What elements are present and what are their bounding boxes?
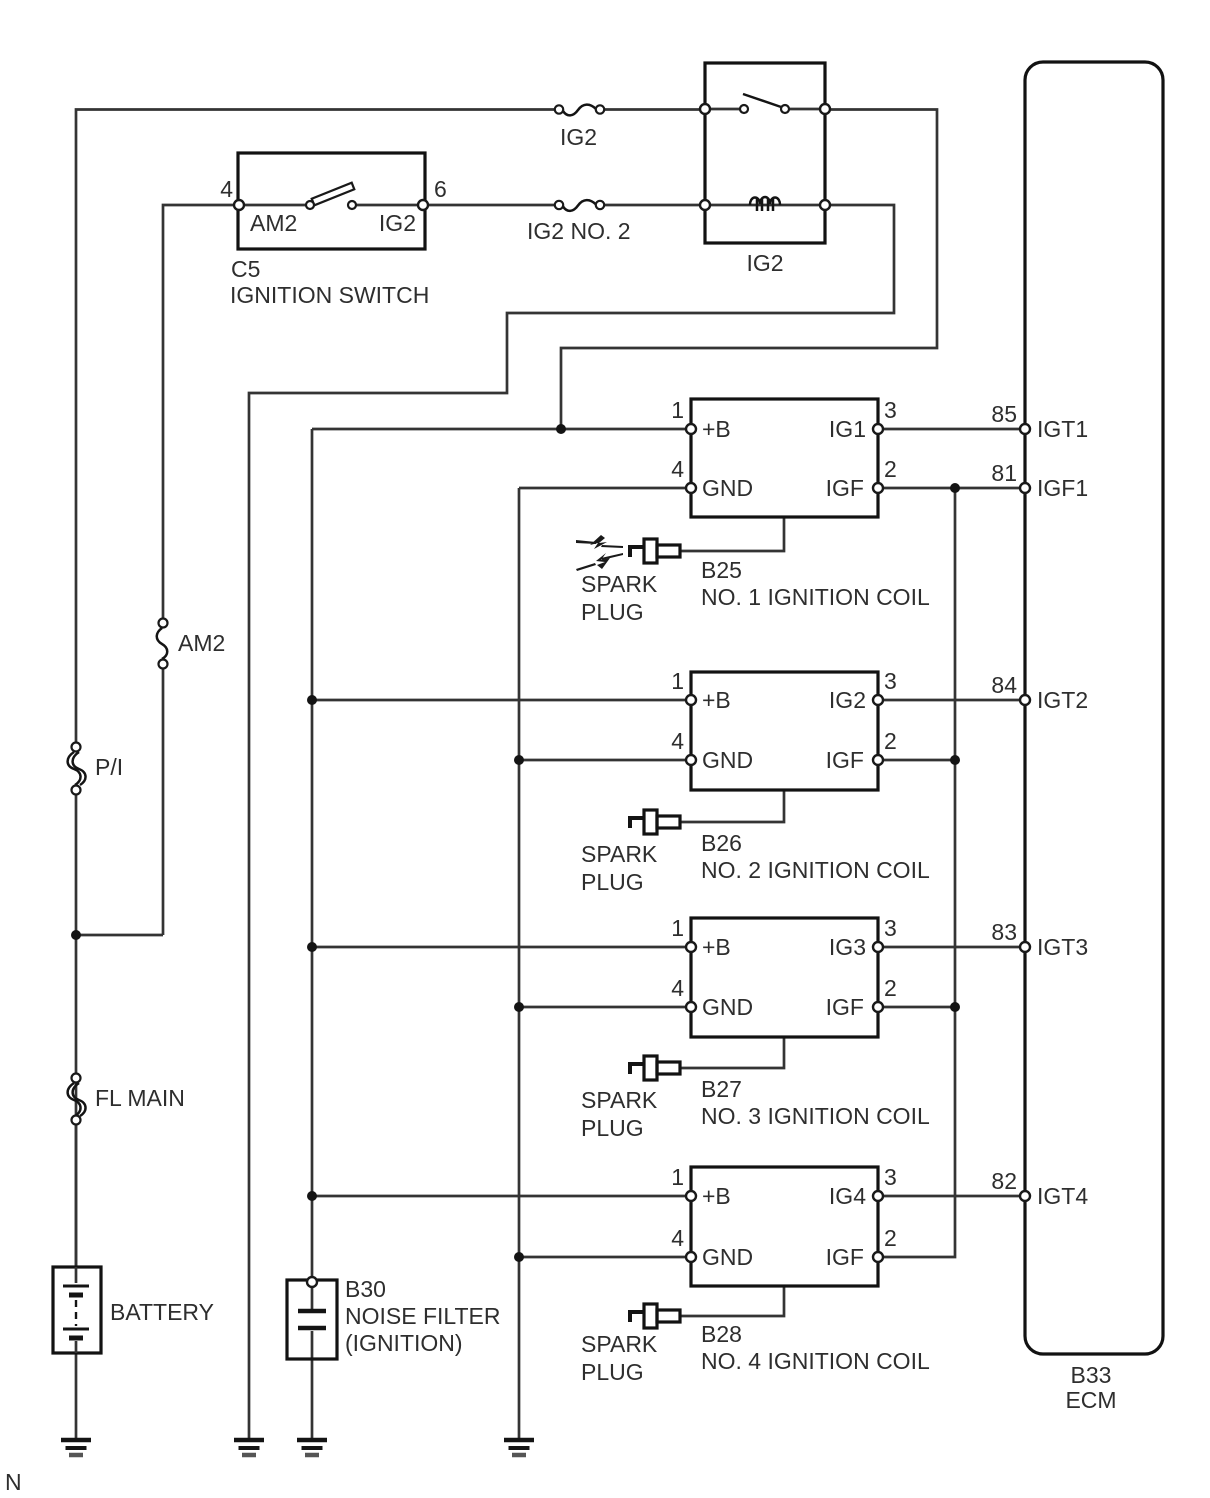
svg-text:PLUG: PLUG <box>581 1359 644 1385</box>
wire IG4 to ECM IGT4 <box>878 1195 1025 1198</box>
wire GND coil1 <box>519 487 691 490</box>
svg-text:4: 4 <box>220 176 233 202</box>
svg-text:PLUG: PLUG <box>581 599 644 625</box>
wire +B coil4 <box>312 1195 691 1198</box>
ignition coil 1 B25 <box>671 397 930 610</box>
ignition coil 3 B27 <box>671 915 930 1129</box>
svg-text:3: 3 <box>884 915 897 941</box>
wire coil2 secondary to spark plug <box>680 790 784 822</box>
wire IGF bus vertical <box>878 488 955 1257</box>
svg-text:GND: GND <box>702 475 753 501</box>
svg-text:1: 1 <box>671 1164 684 1190</box>
svg-text:4: 4 <box>671 456 684 482</box>
svg-text:84: 84 <box>991 672 1017 698</box>
wire FL MAIN lower riser <box>75 1120 78 1267</box>
svg-text:AM2: AM2 <box>250 210 297 236</box>
svg-text:+B: +B <box>702 934 731 960</box>
ignition switch C5 <box>220 153 447 308</box>
wire coil1 secondary to spark plug <box>680 517 784 551</box>
noise filter B30 <box>287 1276 501 1359</box>
svg-text:BATTERY: BATTERY <box>110 1299 214 1325</box>
svg-text:+B: +B <box>702 1183 731 1209</box>
svg-text:IGT2: IGT2 <box>1037 687 1088 713</box>
wire battery-top horizontal y=109 <box>75 790 78 1267</box>
wire coil3 secondary to spark plug <box>680 1037 784 1068</box>
svg-text:6: 6 <box>434 176 447 202</box>
svg-text:IGF: IGF <box>826 475 864 501</box>
ignition coil 2 B26 <box>671 668 930 883</box>
svg-text:IG4: IG4 <box>829 1183 866 1209</box>
svg-text:NO. 1 IGNITION COIL: NO. 1 IGNITION COIL <box>701 584 930 610</box>
svg-text:IG2: IG2 <box>560 124 597 150</box>
wire IG3 to ECM IGT3 <box>878 946 1025 949</box>
svg-text:PLUG: PLUG <box>581 1115 644 1141</box>
wire GND coil4 <box>519 1256 691 1259</box>
svg-text:1: 1 <box>671 397 684 423</box>
svg-text:GND: GND <box>702 1244 753 1270</box>
wire relay coil to ground riser <box>249 205 894 1439</box>
svg-text:IGT1: IGT1 <box>1037 416 1088 442</box>
svg-text:2: 2 <box>884 1225 897 1251</box>
svg-text:GND: GND <box>702 747 753 773</box>
svg-text:NO. 2 IGNITION COIL: NO. 2 IGNITION COIL <box>701 857 930 883</box>
svg-text:B27: B27 <box>701 1076 742 1102</box>
battery <box>53 1267 214 1353</box>
fuse IG2 NO. 2 <box>527 200 631 244</box>
svg-text:IGT3: IGT3 <box>1037 934 1088 960</box>
svg-text:IGF: IGF <box>826 1244 864 1270</box>
svg-text:3: 3 <box>884 397 897 423</box>
wire switch pin 6 to IG2 NO.2 fuse <box>423 204 555 207</box>
svg-text:NO. 4 IGNITION COIL: NO. 4 IGNITION COIL <box>701 1348 930 1374</box>
svg-text:N: N <box>5 1469 22 1495</box>
wire IG2 fuse to relay pin <box>604 108 703 111</box>
svg-text:NO. 3 IGNITION COIL: NO. 3 IGNITION COIL <box>701 1103 930 1129</box>
spark plug 3 <box>581 1056 680 1141</box>
svg-text:P/I: P/I <box>95 754 123 780</box>
ECM B33 <box>991 62 1163 1413</box>
wire GND bus vertical <box>518 488 521 1439</box>
svg-text:B26: B26 <box>701 830 742 856</box>
svg-text:ECM: ECM <box>1065 1387 1116 1413</box>
svg-text:2: 2 <box>884 975 897 1001</box>
wire IGF1 to ECM <box>878 487 1025 490</box>
fusible link P/I <box>68 743 124 795</box>
svg-text:B33: B33 <box>1071 1362 1112 1388</box>
svg-text:81: 81 <box>991 460 1017 486</box>
svg-text:+B: +B <box>702 416 731 442</box>
fuse AM2 <box>157 619 226 669</box>
svg-text:SPARK: SPARK <box>581 1331 658 1357</box>
wire +B bus vertical <box>311 429 314 1196</box>
svg-text:1: 1 <box>671 915 684 941</box>
svg-text:IGF: IGF <box>826 747 864 773</box>
svg-text:SPARK: SPARK <box>581 1087 658 1113</box>
wire AM2 riser to switch pin 4 <box>162 664 165 935</box>
ignition coil 4 B28 <box>671 1164 930 1374</box>
fuse IG2 <box>555 105 604 150</box>
svg-text:IG1: IG1 <box>829 416 866 442</box>
wire +B coil1 <box>312 428 691 431</box>
relay IG2 <box>700 63 830 276</box>
svg-text:IGNITION SWITCH: IGNITION SWITCH <box>230 282 429 308</box>
svg-text:(IGNITION): (IGNITION) <box>345 1330 463 1356</box>
svg-text:82: 82 <box>991 1168 1017 1194</box>
svg-text:4: 4 <box>671 728 684 754</box>
wire relay output to +B feed riser <box>561 110 937 430</box>
svg-text:IG2: IG2 <box>379 210 416 236</box>
ground coil GND bus <box>504 1440 534 1455</box>
svg-text:IGF1: IGF1 <box>1037 475 1088 501</box>
wire battery to ground <box>75 1353 78 1439</box>
wire noise filter to ground <box>311 1331 314 1439</box>
svg-text:AM2: AM2 <box>178 630 225 656</box>
wire GND coil3 <box>519 1006 691 1009</box>
svg-text:B30: B30 <box>345 1276 386 1302</box>
wire coil4 secondary to spark plug <box>680 1286 784 1316</box>
ground relay coil <box>234 1440 264 1455</box>
svg-text:B28: B28 <box>701 1321 742 1347</box>
wire IGF coil3 <box>878 1006 955 1009</box>
ground battery <box>61 1440 91 1455</box>
svg-text:+B: +B <box>702 687 731 713</box>
svg-text:GND: GND <box>702 994 753 1020</box>
wire +B coil2 <box>312 699 691 702</box>
svg-text:3: 3 <box>884 1164 897 1190</box>
svg-text:NOISE FILTER: NOISE FILTER <box>345 1303 501 1329</box>
wire IG1 to ECM IGT1 <box>878 428 1025 431</box>
svg-text:C5: C5 <box>231 256 260 282</box>
spark plug 2 <box>581 810 680 895</box>
svg-text:2: 2 <box>884 456 897 482</box>
wire top bus from left riser to IG2 fuse <box>76 110 555 748</box>
svg-text:4: 4 <box>671 975 684 1001</box>
svg-text:SPARK: SPARK <box>581 841 658 867</box>
wire IG2 NO.2 fuse to relay coil <box>604 204 703 207</box>
svg-text:4: 4 <box>671 1225 684 1251</box>
svg-text:1: 1 <box>671 668 684 694</box>
svg-text:IG2 NO. 2: IG2 NO. 2 <box>527 218 631 244</box>
svg-text:83: 83 <box>991 919 1017 945</box>
wire noise filter riser <box>311 1196 314 1282</box>
svg-text:IG3: IG3 <box>829 934 866 960</box>
junction dots <box>556 424 566 434</box>
svg-text:IGF: IGF <box>826 994 864 1020</box>
wire GND coil2 <box>519 759 691 762</box>
svg-text:IGT4: IGT4 <box>1037 1183 1088 1209</box>
wire IGF coil2 <box>878 759 955 762</box>
wire +B coil3 <box>312 946 691 949</box>
spark plug 4 <box>581 1304 680 1385</box>
spark plug 1 <box>576 535 680 625</box>
wire IG2 to ECM IGT2 <box>878 699 1025 702</box>
svg-text:2: 2 <box>884 728 897 754</box>
svg-text:B25: B25 <box>701 557 742 583</box>
fusible link FL MAIN <box>68 1074 185 1125</box>
ground noise filter <box>297 1440 327 1455</box>
svg-text:IG2: IG2 <box>746 250 783 276</box>
svg-text:SPARK: SPARK <box>581 571 658 597</box>
svg-text:85: 85 <box>991 401 1017 427</box>
svg-text:FL MAIN: FL MAIN <box>95 1085 185 1111</box>
svg-text:PLUG: PLUG <box>581 869 644 895</box>
wire AM2 branch junction horizontal <box>76 934 163 937</box>
svg-text:3: 3 <box>884 668 897 694</box>
svg-text:IG2: IG2 <box>829 687 866 713</box>
